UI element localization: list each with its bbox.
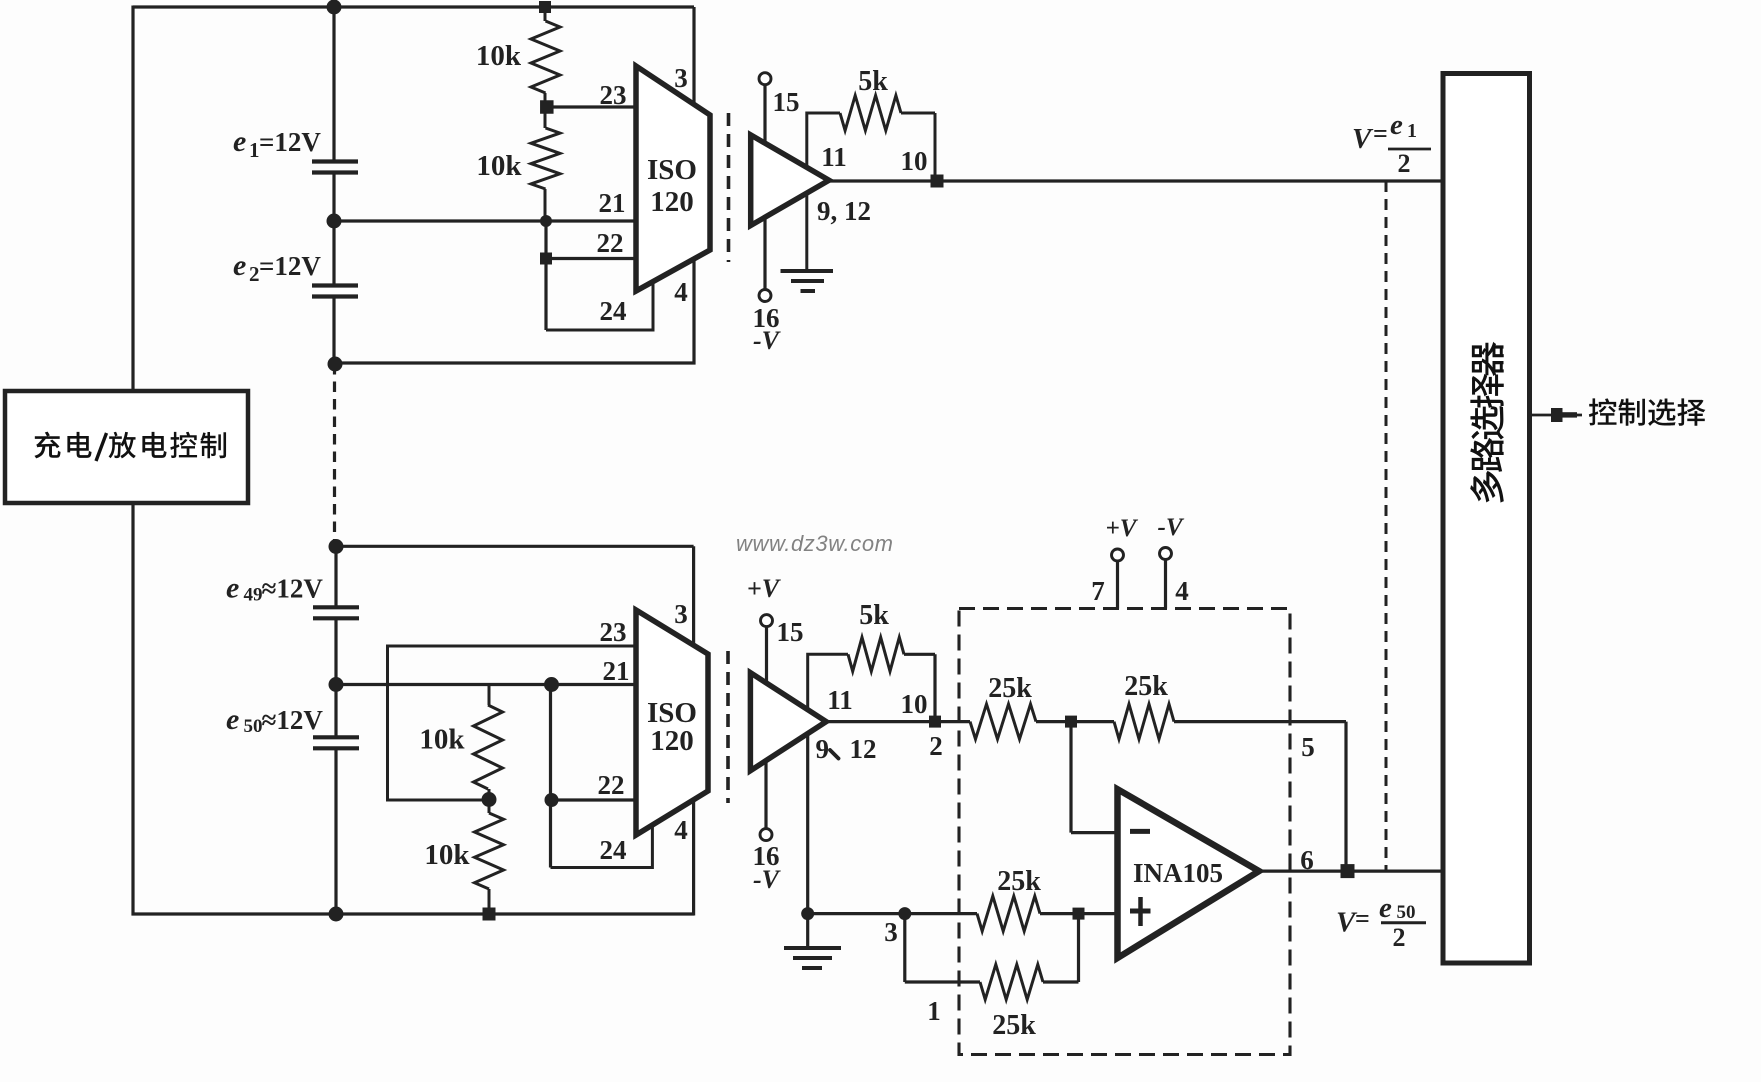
resistor R4 10k stems (488, 800, 491, 813)
node 6 output junction (1341, 864, 1355, 878)
battery e1 plates (312, 159, 358, 163)
svg-text:50: 50 (244, 716, 263, 737)
wire T2 output to INA input (826, 720, 970, 723)
svg-text:=: = (1373, 119, 1388, 148)
svg-text:e: e (1390, 109, 1403, 141)
wire inverting input INA105 (1069, 722, 1072, 833)
block charge/discharge control (5, 391, 248, 503)
node R3/R4/pin23 junction (482, 792, 497, 807)
svg-text:10k: 10k (476, 40, 522, 72)
wire left rail upper (131, 6, 134, 393)
svg-text:1: 1 (249, 138, 260, 162)
svg-text:24: 24 (600, 296, 627, 326)
svg-text:4: 4 (1175, 576, 1189, 606)
op-amp T1 output buffer (751, 135, 829, 226)
wire pin23 loop bottom (388, 646, 637, 800)
node pin23 junction (540, 100, 554, 114)
svg-text:3: 3 (674, 599, 688, 629)
resistor R1 10k stems (544, 7, 547, 21)
node ground junction (T2) (801, 907, 814, 920)
wire output channel 1 (829, 179, 1441, 182)
svg-text:10k: 10k (419, 724, 465, 756)
wire battery column e2 bottom (332, 297, 335, 364)
svg-text:2: 2 (1393, 923, 1406, 952)
node pin22 junction bottom (545, 793, 559, 807)
svg-text:10: 10 (901, 146, 928, 176)
svg-text:25k: 25k (992, 1010, 1036, 1041)
terminal pin16 (T1) (759, 290, 771, 302)
ground (T1) (781, 269, 834, 273)
svg-text:10: 10 (901, 689, 928, 719)
svg-text:≈12V: ≈12V (262, 574, 324, 604)
svg-text:www.dz3w.com: www.dz3w.com (736, 531, 894, 556)
battery e49 plates (313, 605, 359, 609)
block multiplexer (1443, 74, 1530, 964)
node pin22 junction (540, 253, 552, 265)
node e49/e50 junction (329, 677, 344, 692)
resistor R3 10k (474, 705, 503, 789)
svg-text:9, 12: 9, 12 (817, 196, 871, 226)
op-amp T2 output buffer (750, 673, 826, 771)
resistor R5k-1 (840, 96, 901, 131)
svg-text:25k: 25k (997, 866, 1041, 897)
svg-text:e: e (233, 125, 246, 158)
node 25k junction (noninverting) (1073, 908, 1085, 920)
battery e50 plates (313, 735, 359, 739)
svg-text:5: 5 (1301, 732, 1315, 762)
svg-text:e: e (226, 572, 239, 605)
wire battery column e49 top (334, 546, 337, 607)
node bottom group top rail (329, 539, 344, 554)
wire battery column e1-e2 (332, 173, 335, 286)
svg-text:2: 2 (249, 262, 260, 286)
svg-text:22: 22 (597, 228, 624, 258)
svg-text:=12V: =12V (259, 251, 321, 281)
op-amp U3 INA105 (1118, 789, 1260, 958)
wire pin21 tap (334, 219, 636, 222)
wire pin22 horizontal bottom (551, 798, 637, 801)
svg-text:23: 23 (600, 617, 627, 647)
svg-text:-V: -V (1158, 514, 1185, 541)
svg-text:=12V: =12V (259, 127, 321, 157)
wire INA105 output (1262, 869, 1441, 872)
terminal pin15 (T1) (759, 73, 771, 85)
svg-text:11: 11 (821, 142, 847, 172)
node battery bottom rail (329, 907, 344, 922)
svg-text:120: 120 (650, 725, 694, 757)
resistor R5k-2 (848, 637, 904, 671)
wire dashed battery-string continuation (333, 364, 336, 547)
isolation barrier U2 (726, 651, 730, 803)
node e1/e2 junction (327, 214, 342, 229)
svg-text:4: 4 (674, 277, 688, 307)
wire bottom rail of top cell group (334, 361, 696, 364)
node R4 bottom rail (483, 908, 496, 921)
wire pin21 tap bottom (336, 683, 636, 686)
isolation amp U1 ISO120 input side (636, 66, 710, 291)
svg-text:25k: 25k (1124, 671, 1168, 702)
wire ground stem T2 (806, 734, 809, 948)
wire noninverting rail (808, 912, 977, 915)
wire ground stem T1 (805, 193, 808, 271)
wire R25k-4 parallel loop (903, 914, 906, 982)
svg-text:6: 6 (1300, 845, 1314, 875)
resistor R1 10k (531, 21, 560, 93)
wire battery column e49-e50 (334, 618, 337, 737)
svg-text:24: 24 (600, 835, 627, 865)
node 10/2 (T2 output) (929, 716, 941, 728)
wire feedback loop T2 (808, 654, 848, 708)
svg-text:120: 120 (650, 186, 694, 218)
wire left rail lower (131, 502, 134, 916)
node R1 top rail (539, 1, 551, 13)
svg-text:2: 2 (1398, 149, 1411, 178)
label charge/discharge control text (34, 432, 60, 459)
svg-text:-V: -V (753, 865, 782, 894)
battery e2 plates (312, 283, 358, 287)
wire pin15 (T1) (763, 84, 766, 145)
svg-text:+V: +V (747, 574, 782, 603)
svg-text:49: 49 (244, 585, 263, 606)
wire bottom rail (132, 912, 695, 915)
svg-text:22: 22 (598, 770, 625, 800)
svg-text:2: 2 (929, 731, 943, 761)
svg-text:23: 23 (600, 80, 627, 110)
svg-text:9: 9 (816, 734, 830, 764)
svg-text:-V: -V (753, 326, 782, 355)
plus symbol (U3) (1130, 909, 1151, 914)
svg-text:4: 4 (674, 815, 688, 845)
svg-text:V: V (1352, 123, 1374, 155)
svg-text:+V: +V (1106, 515, 1139, 542)
resistor R25k-3 (977, 896, 1040, 931)
label control select text (1589, 398, 1617, 425)
resistor R2 10k stems (544, 107, 547, 128)
node 25k junction (inverting path) (1065, 716, 1077, 728)
resistor R25k-1 (970, 704, 1036, 739)
node 10 (T1 output) (931, 175, 944, 188)
label multiplexer text (1472, 342, 1504, 376)
resistor R3 10k stems (488, 685, 491, 706)
wire top rail (battery + to ISO1 pin3 rail) (133, 5, 694, 8)
svg-text:≈12V: ≈12V (262, 705, 324, 735)
wire pin22 vertical bottom (549, 685, 552, 868)
svg-text:10k: 10k (424, 839, 470, 871)
svg-text:15: 15 (773, 87, 800, 117)
svg-text:21: 21 (603, 656, 630, 686)
wire pin22 tap (544, 221, 547, 330)
terminal pin7 +V (1112, 549, 1124, 561)
terminal pin16 (T2) (760, 829, 772, 841)
svg-text:15: 15 (777, 617, 804, 647)
wire pin16 (T1) (763, 217, 766, 291)
wire pin4 supply stem (1164, 559, 1167, 609)
dashed channel continuation line (1385, 181, 1388, 871)
wire pin15 (T2) (765, 626, 768, 684)
svg-text:21: 21 (599, 188, 626, 218)
svg-text:=: = (1355, 904, 1370, 933)
wire pin23 tap (546, 105, 636, 108)
svg-text:e: e (233, 249, 246, 282)
svg-text:5k: 5k (858, 66, 888, 97)
node R2 bottom on pin21 wire (540, 215, 552, 227)
wire top rail of bottom cell group (336, 545, 694, 548)
node pin22 tap on pin21 wire (bottom) (544, 677, 559, 692)
svg-text:1: 1 (1407, 120, 1417, 142)
svg-text:1: 1 (927, 996, 941, 1026)
wire battery column e50 bottom (334, 748, 337, 914)
wire feedback loop T1 (807, 113, 840, 166)
isolation amp U2 ISO120 input side (636, 610, 708, 835)
svg-text:3: 3 (674, 63, 688, 93)
wire right rail of top cell group (pin 3 / pin 4) (692, 7, 695, 365)
svg-text:50: 50 (1397, 902, 1416, 923)
svg-text:e: e (1379, 892, 1392, 924)
node e2 bottom junction (328, 357, 343, 372)
resistor R25k-4 (980, 965, 1043, 1000)
svg-text:12: 12 (850, 734, 877, 764)
svg-text:ISO: ISO (647, 154, 697, 186)
wire pin24 loop (546, 284, 653, 330)
wire pin22 horizontal (546, 257, 636, 260)
terminal pin4 -V (1160, 548, 1172, 560)
wire pin24 loop bottom (551, 824, 653, 868)
minus symbol (U3) (1130, 829, 1150, 834)
wire pin16 (T2) (764, 760, 767, 830)
ground (bottom) (784, 946, 841, 950)
resistor R4 10k (475, 813, 504, 889)
svg-text:3: 3 (884, 917, 898, 947)
svg-text:11: 11 (827, 685, 853, 715)
terminal pin15 (T2) (761, 615, 773, 627)
node battery top rail (327, 0, 342, 15)
wire control select stub (1530, 414, 1582, 417)
isolation barrier U1 (727, 113, 731, 262)
svg-text:e: e (226, 703, 239, 736)
wire pin7 supply stem (1116, 561, 1119, 609)
arrow control select (1551, 408, 1563, 422)
svg-text:7: 7 (1091, 576, 1105, 606)
svg-text:5k: 5k (859, 600, 889, 631)
resistor R25k-2 feedback (1114, 704, 1174, 739)
dashed box INA105 module (959, 609, 1290, 1055)
resistor R2 10k (531, 128, 560, 189)
svg-text:INA105: INA105 (1133, 858, 1223, 888)
node 3 junction (898, 907, 911, 920)
wire right rail of bottom cell group (692, 546, 695, 915)
svg-text:25k: 25k (988, 673, 1032, 704)
svg-text:10k: 10k (476, 150, 522, 182)
wire battery column e1 top (332, 7, 335, 162)
